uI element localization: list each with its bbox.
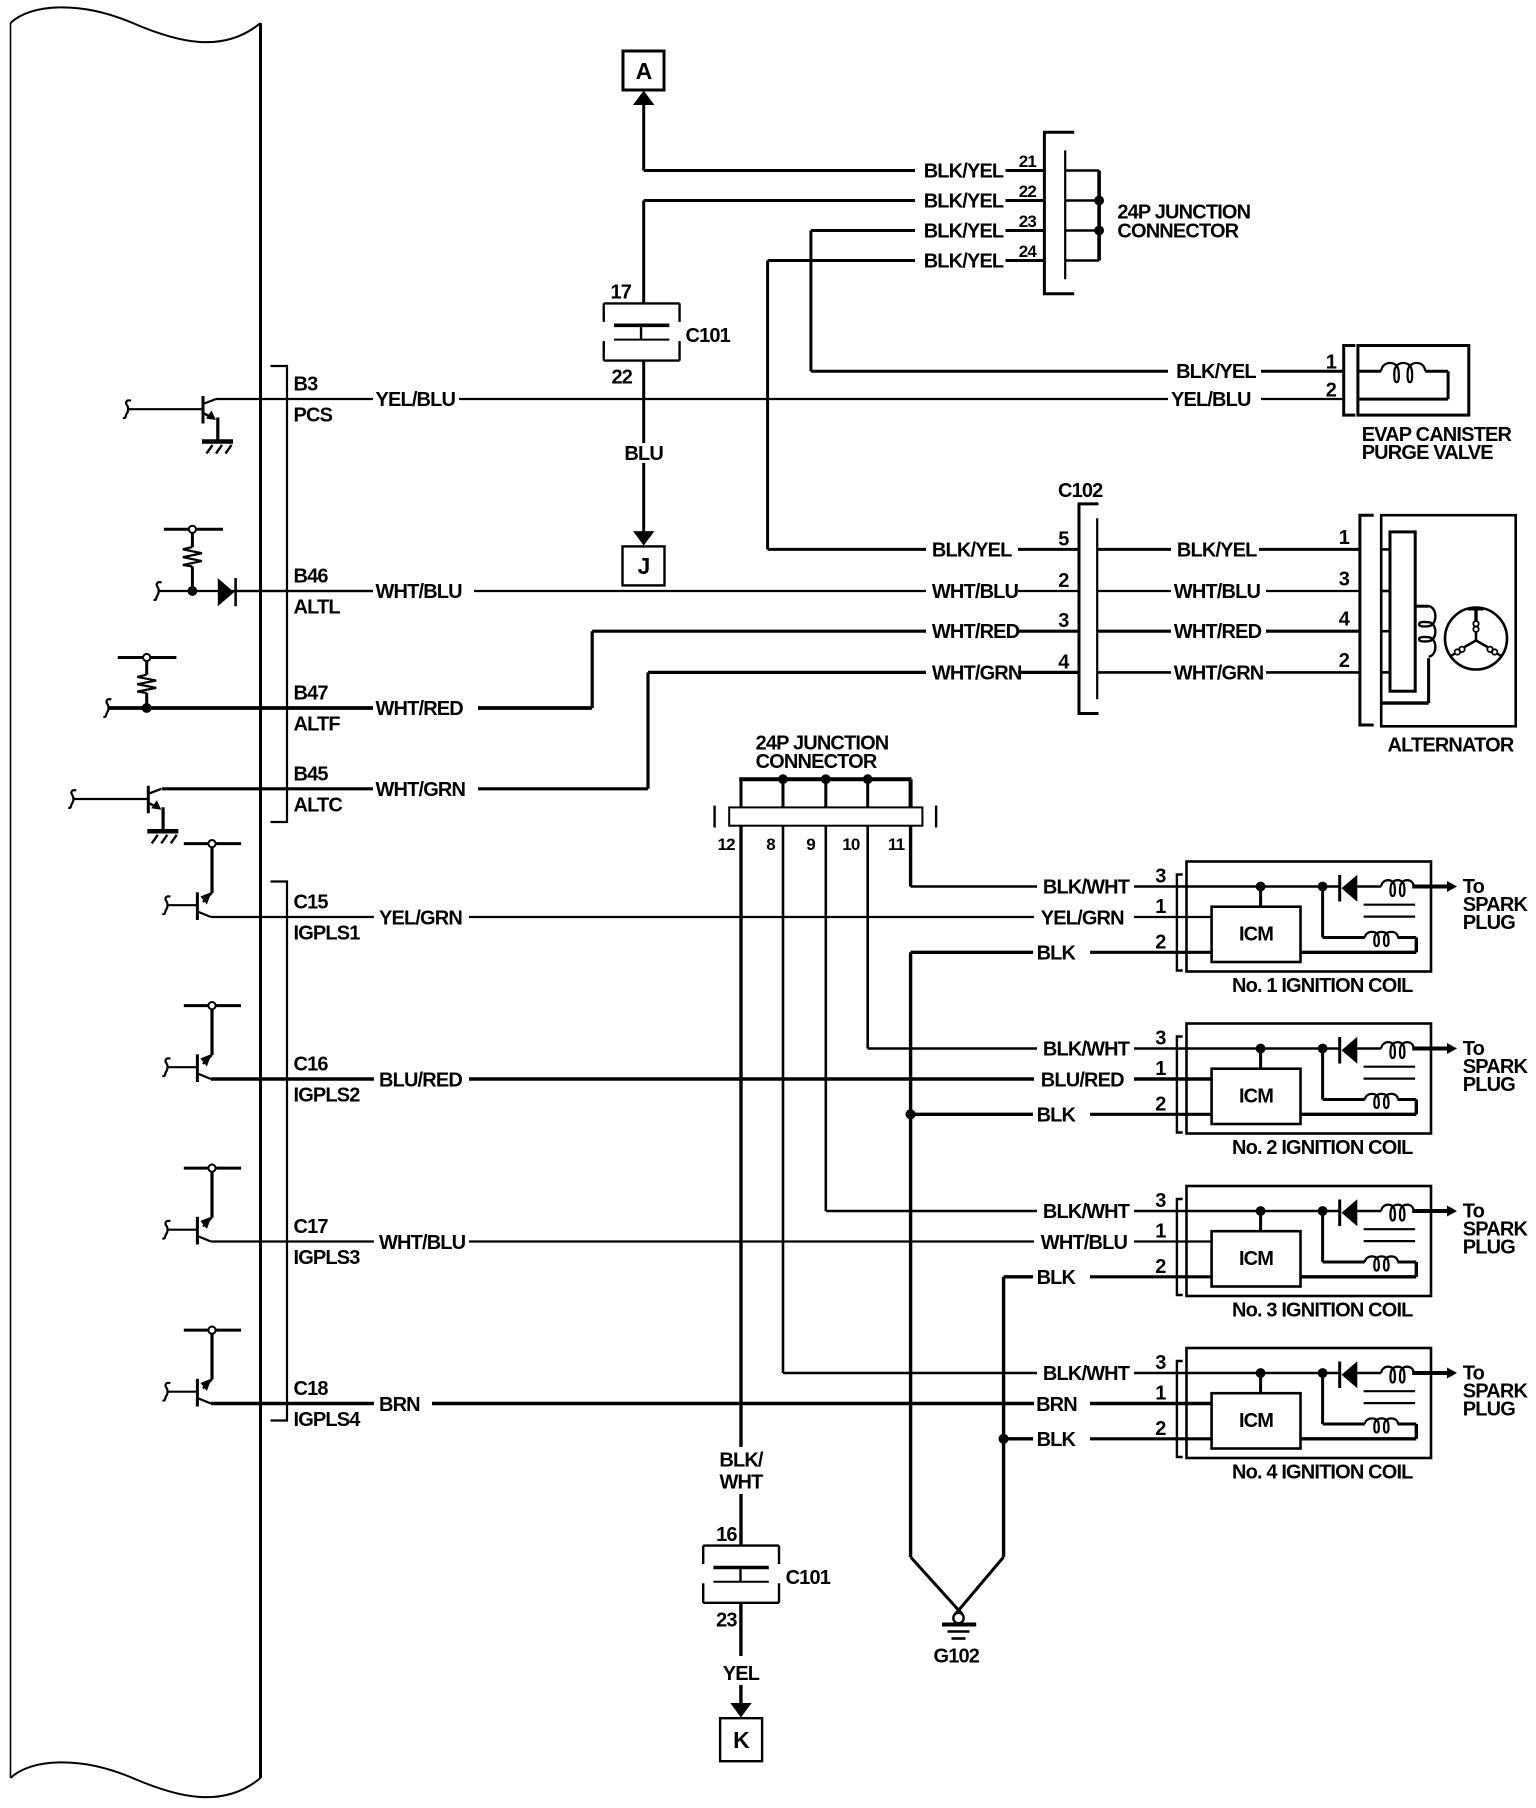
svg-text:2: 2 [1058,570,1069,592]
svg-text:ALTL: ALTL [294,597,341,619]
wire B45 WHT/GRN to C102 pin 4 [162,787,373,790]
svg-text:B46: B46 [294,566,329,588]
svg-text:C15: C15 [294,892,329,914]
connector C101 (pins 17/22) [604,302,680,304]
svg-text:WHT/BLU: WHT/BLU [1174,581,1261,603]
connector symbol K (off-page) [720,1718,762,1761]
transistor Q6 (IGPLS4 driver) [184,1329,241,1332]
svg-text:No. 1 IGNITION COIL: No. 1 IGNITION COIL [1232,975,1413,997]
connector symbol J (off-page) [623,546,665,585]
svg-text:ICM: ICM [1239,1086,1273,1108]
svg-text:IGPLS2: IGPLS2 [294,1085,361,1107]
ECM connector bracket group B3-B45 [271,366,288,822]
svg-text:PLUG: PLUG [1463,1399,1515,1421]
resistor R1 with pull-up rail (ALTL) [164,528,223,531]
ECM torn-page bottom edge (wavy) [11,1762,261,1797]
wire pin 12 BLK/WHT down to C101 pin 16 [739,826,742,1447]
svg-text:No. 4 IGNITION COIL: No. 4 IGNITION COIL [1232,1462,1413,1484]
svg-text:23: 23 [716,1609,737,1631]
secondary winding (No.3 coil) [1321,1211,1324,1262]
wire BLK/YEL pin 21 [644,169,915,172]
svg-text:WHT/RED: WHT/RED [932,621,1020,643]
transistor Q5 (IGPLS3 driver) [184,1167,241,1170]
svg-text:ICM: ICM [1239,924,1273,946]
transistor Q1 (PCS driver) [202,396,205,424]
EVAP canister purge valve [1344,346,1356,416]
svg-text:4: 4 [1339,609,1351,631]
svg-text:C16: C16 [294,1054,329,1076]
wire B3 YEL/BLU to EVAP pin 2 [216,398,373,400]
svg-text:12: 12 [717,835,735,854]
No.4 coil pin2 wire BLK [1090,1437,1212,1440]
wire BLK/YEL pin 24 to C102 pin 5 [768,259,915,262]
stator (3-phase Y winding) [1445,608,1507,670]
svg-text:G102: G102 [934,1646,980,1668]
svg-text:WHT/RED: WHT/RED [1174,621,1262,643]
wire BLU from C101 pin 22 to J [642,361,645,443]
svg-text:3: 3 [1155,1190,1166,1212]
svg-text:3: 3 [1155,1352,1166,1374]
solenoid coil L1 (purge valve) [1381,363,1425,382]
svg-text:2: 2 [1155,1093,1166,1115]
svg-text:WHT/GRN: WHT/GRN [932,662,1022,684]
svg-text:BRN: BRN [379,1394,420,1416]
No.3 ignition coil [1187,1186,1432,1296]
secondary winding (No.2 coil) [1321,1049,1324,1100]
svg-text:16: 16 [716,1524,737,1546]
svg-text:YEL/GRN: YEL/GRN [1041,907,1124,929]
svg-text:CONNECTOR: CONNECTOR [1117,220,1239,242]
svg-text:ALTF: ALTF [294,714,341,736]
svg-text:ICM: ICM [1239,1410,1273,1432]
No.4 coil pin3 wire + ICM [1134,1372,1340,1375]
svg-text:WHT/GRN: WHT/GRN [376,779,466,801]
junction dot pin 23 bus [1095,226,1104,235]
svg-text:ALTERNATOR: ALTERNATOR [1388,735,1515,757]
svg-text:2: 2 [1155,1418,1166,1440]
transistor Q3 (IGPLS1 driver) [184,842,241,845]
svg-text:A: A [636,58,652,84]
svg-text:17: 17 [610,282,631,304]
wire BLK/YEL pin 23 to EVAP pin 1 [811,229,915,232]
diode D (No.3 coil) [1338,1200,1341,1227]
svg-text:C102: C102 [1058,480,1103,502]
No.4 ignition coil [1187,1348,1432,1458]
wire B46 WHT/BLU to C102 pin 2 [372,590,374,592]
svg-text:3: 3 [1155,866,1166,888]
svg-text:4: 4 [1058,651,1070,673]
svg-text:1: 1 [1155,1383,1166,1405]
svg-text:3: 3 [1155,1028,1166,1050]
svg-text:1: 1 [1339,527,1350,549]
svg-text:BLK/YEL: BLK/YEL [1176,361,1256,383]
transistor Q2 (ALTC driver) [147,786,150,814]
svg-text:3: 3 [1339,569,1350,591]
secondary winding (No.4 coil) [1321,1373,1324,1424]
wire B47 WHT/RED to C102 pin 3 [371,706,375,710]
diode D1 (ALTL) [218,578,234,606]
wire BLK No.3/No.4 coils to G102 [1002,1277,1005,1557]
junction dots on bus [779,775,788,784]
svg-text:22: 22 [611,367,632,389]
svg-text:C18: C18 [294,1378,329,1400]
svg-text:2: 2 [1155,931,1166,953]
svg-text:9: 9 [806,835,815,854]
wire pin 8 to No.4 coil BLK/WHT [782,826,785,1373]
svg-text:YEL: YEL [723,1663,760,1685]
core (No.1 coil) [1364,904,1416,906]
svg-text:B3: B3 [294,374,319,396]
wire pin 11 to No.1 coil BLK/WHT [909,826,912,887]
No.1 coil pin2 wire BLK [1090,951,1212,954]
svg-text:BLK/YEL: BLK/YEL [932,539,1012,561]
ECM module torn-page outline: left edge [10,23,12,1778]
svg-text:WHT/RED: WHT/RED [376,698,464,720]
No.2 coil pin3 wire + ICM [1134,1047,1340,1050]
primary winding (No.4 coil) [1357,1372,1381,1374]
svg-text:1: 1 [1155,896,1166,918]
core (No.2 coil) [1364,1066,1416,1068]
primary winding (No.3 coil) [1357,1210,1381,1212]
svg-text:PURGE VALVE: PURGE VALVE [1362,442,1494,464]
diode D (No.1 coil) [1338,875,1341,902]
svg-text:YEL/BLU: YEL/BLU [376,389,456,411]
ECM torn-page top edge (wavy) [11,7,261,42]
No.1 ignition coil [1187,862,1432,972]
wire BLK No.1/No.2 coils to G102 [909,952,912,1557]
svg-text:BLU: BLU [624,443,663,465]
svg-text:No. 3 IGNITION COIL: No. 3 IGNITION COIL [1232,1300,1413,1322]
ICM U4 [1212,1393,1301,1448]
svg-text:C101: C101 [686,325,731,347]
wire C18 BRN to No.4 ignition coil pin 1 [211,1402,374,1405]
svg-text:5: 5 [1058,528,1069,550]
svg-text:24: 24 [1019,242,1038,261]
svg-text:BLK/WHT: BLK/WHT [1043,1201,1130,1223]
svg-text:23: 23 [1019,212,1037,231]
24P junction connector (top right) [1044,132,1074,294]
svg-text:J: J [638,553,650,579]
secondary winding (No.1 coil) [1321,887,1324,938]
svg-text:ALTC: ALTC [294,794,343,816]
svg-text:21: 21 [1019,152,1037,171]
svg-text:WHT: WHT [720,1472,764,1494]
No.3 coil pin2 wire BLK [1090,1275,1212,1278]
ICM U1 [1212,907,1301,962]
wire BLK/YEL pin 22 to C101 pin 17 [644,199,915,202]
svg-text:WHT/BLU: WHT/BLU [1041,1232,1128,1254]
svg-text:No. 2 IGNITION COIL: No. 2 IGNITION COIL [1232,1137,1413,1159]
svg-text:2: 2 [1339,650,1350,672]
svg-text:WHT/BLU: WHT/BLU [379,1232,466,1254]
junction dot at B46 wire [188,587,197,596]
core (No.4 coil) [1364,1390,1416,1392]
svg-text:3: 3 [1058,610,1069,632]
junction dot pin 22 bus [1095,196,1104,205]
ground G102 [911,1557,963,1615]
svg-text:BLK: BLK [1037,1429,1077,1451]
svg-text:BLK/YEL: BLK/YEL [924,221,1004,243]
wire B47 internal [108,706,373,710]
svg-text:11: 11 [888,835,905,854]
svg-text:BLU/RED: BLU/RED [379,1069,462,1091]
core (No.3 coil) [1364,1228,1416,1230]
svg-text:K: K [733,1727,750,1753]
No.1 coil pin3 wire + ICM [1134,885,1340,888]
svg-text:BLK/YEL: BLK/YEL [924,191,1004,213]
svg-text:PLUG: PLUG [1463,912,1515,934]
wire B46 internal [159,590,373,592]
svg-text:WHT/GRN: WHT/GRN [1174,662,1264,684]
svg-text:BLK/WHT: BLK/WHT [1043,1363,1130,1385]
field winding (vertical coil) [1415,605,1428,608]
wire pin 9 to No.3 coil BLK/WHT [824,826,827,1211]
svg-text:2: 2 [1326,379,1337,401]
resistor R2 with pull-up rail (ALTF) [118,656,177,659]
svg-text:PCS: PCS [294,405,333,427]
svg-text:PLUG: PLUG [1463,1237,1515,1259]
primary winding (No.1 coil) [1357,885,1381,887]
svg-text:YEL/BLU: YEL/BLU [1171,389,1251,411]
svg-text:BLK/YEL: BLK/YEL [1177,539,1257,561]
svg-text:C17: C17 [294,1216,329,1238]
svg-text:BLK: BLK [1037,943,1077,965]
No.3 coil pin3 wire + ICM [1134,1210,1340,1213]
wire C17 WHT/BLU to No.3 ignition coil pin 1 [211,1240,374,1242]
svg-text:BLK: BLK [1037,1105,1077,1127]
No.2 ignition coil [1187,1024,1432,1134]
svg-text:BLK/WHT: BLK/WHT [1043,877,1130,899]
svg-text:BLK/YEL: BLK/YEL [924,251,1004,273]
svg-text:IGPLS3: IGPLS3 [294,1247,361,1269]
ECM right edge [259,23,262,1778]
transistor Q4 (IGPLS2 driver) [184,1004,241,1007]
svg-text:8: 8 [766,835,775,854]
svg-text:CONNECTOR: CONNECTOR [756,751,878,773]
wire pin 10 to No.2 coil BLK/WHT [866,826,869,1049]
primary winding (No.2 coil) [1357,1047,1381,1049]
svg-text:WHT/BLU: WHT/BLU [932,581,1019,603]
svg-text:B45: B45 [294,763,329,785]
wire C15 YEL/GRN to No.1 ignition coil pin 1 [211,916,374,918]
svg-text:WHT/BLU: WHT/BLU [376,581,463,603]
svg-text:YEL/GRN: YEL/GRN [379,907,462,929]
svg-text:1: 1 [1155,1221,1166,1243]
wires C102 to alternator [1097,548,1171,551]
ECM connector bracket group C15-C18 [271,882,288,1421]
svg-text:BLK/YEL: BLK/YEL [924,161,1004,183]
No.2 coil pin2 wire BLK [1090,1113,1212,1116]
connector C101 (pins 16/23) [703,1544,779,1546]
ICM U2 [1212,1069,1301,1124]
svg-text:BRN: BRN [1036,1394,1077,1416]
junction dot at B47 wire [142,704,151,713]
svg-text:2: 2 [1155,1256,1166,1278]
svg-text:B47: B47 [294,683,329,705]
svg-text:1: 1 [1155,1058,1166,1080]
svg-text:BLU/RED: BLU/RED [1041,1069,1124,1091]
diode D (No.4 coil) [1338,1362,1341,1389]
connector symbol A (off-page arrow) [623,51,664,90]
svg-text:10: 10 [842,835,860,854]
svg-text:IGPLS1: IGPLS1 [294,923,361,945]
svg-text:BLK: BLK [1037,1267,1077,1289]
svg-text:22: 22 [1019,182,1037,201]
ICM U3 [1212,1231,1301,1286]
svg-text:ICM: ICM [1239,1248,1273,1270]
wire YEL from C101 pin 23 to K [739,1603,742,1656]
alternator [1360,515,1374,725]
svg-text:C101: C101 [786,1567,831,1589]
svg-text:PLUG: PLUG [1463,1074,1515,1096]
svg-text:BLK/: BLK/ [719,1450,764,1472]
diode D (No.2 coil) [1338,1037,1341,1064]
svg-text:1: 1 [1326,351,1337,373]
svg-text:BLK/WHT: BLK/WHT [1043,1039,1130,1061]
svg-text:IGPLS4: IGPLS4 [294,1409,362,1431]
wire C16 BLU/RED to No.2 ignition coil pin 1 [211,1077,374,1080]
